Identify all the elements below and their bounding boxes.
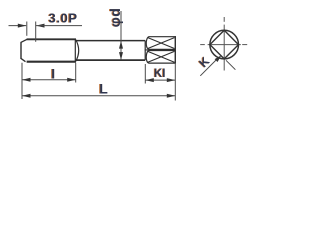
dimension I line xyxy=(22,79,76,81)
square section lower flat outline xyxy=(146,51,175,64)
thread section top edge xyxy=(27,38,76,40)
dimension I left arrow xyxy=(22,78,31,82)
end view horizontal centerline right dash xyxy=(242,44,247,46)
svg-text:I: I xyxy=(51,66,55,82)
shank end face at square xyxy=(144,41,146,61)
dimension 3.0P extension line 1 xyxy=(26,22,28,36)
square section lower X mark xyxy=(148,51,175,62)
end view shank circle xyxy=(210,30,239,59)
dimension K edge extension line xyxy=(226,60,235,69)
dimension 3.0P extension line 2 xyxy=(35,22,37,42)
left shared extension line for I and L xyxy=(21,63,23,99)
dimension 3.0P left tail xyxy=(9,25,27,27)
dimension I right arrow xyxy=(67,78,76,82)
svg-text:KI: KI xyxy=(154,68,166,80)
shank bottom edge xyxy=(76,59,146,61)
dimension K arrow xyxy=(215,55,222,62)
thread section bottom edge xyxy=(27,61,76,63)
square section mid line xyxy=(145,49,176,51)
thread runout arc xyxy=(76,40,79,62)
dimension phi d vertical line xyxy=(120,11,122,60)
shank top edge xyxy=(76,40,146,42)
square section upper X mark xyxy=(148,38,175,49)
square section right end xyxy=(174,36,176,64)
dimension KI right arrow xyxy=(167,78,176,82)
svg-text:3.0P: 3.0P xyxy=(49,10,78,25)
svg-text:L: L xyxy=(99,80,108,96)
thread to shank step xyxy=(74,39,76,61)
dimension 3.0P right tail xyxy=(36,25,82,27)
dimension I right extension line xyxy=(75,63,77,83)
end view vertical centerline main xyxy=(223,25,225,71)
dimension phi d down arrow xyxy=(119,52,123,60)
end view square (rotated 45) xyxy=(210,30,239,59)
dimension L line xyxy=(22,95,175,97)
end view horizontal centerline main xyxy=(208,44,241,46)
end view vertical centerline top dash xyxy=(223,17,225,22)
dimension KI left extension line xyxy=(144,64,146,84)
dimension KI right extension line (shared with L) xyxy=(174,64,176,101)
dimension 3.0P right arrow xyxy=(36,24,45,28)
dimension KI left arrow xyxy=(145,78,154,82)
square section upper flat outline xyxy=(146,37,175,50)
dimension KI line xyxy=(145,79,175,81)
tap tip end face xyxy=(20,42,22,58)
dimension phi d up arrow xyxy=(119,41,123,49)
dimension 3.0P left arrow xyxy=(18,24,27,28)
svg-text:φd: φd xyxy=(107,8,123,28)
dimension K line xyxy=(200,59,217,76)
dimension L right arrow xyxy=(167,94,176,98)
tap tip top chamfer xyxy=(21,39,27,42)
dimension L left arrow xyxy=(22,94,31,98)
tap tip bottom chamfer xyxy=(21,58,26,62)
end view horizontal centerline left dash xyxy=(200,44,205,46)
